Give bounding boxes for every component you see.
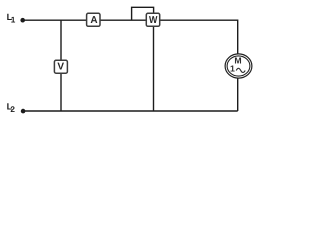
svg-text:A: A <box>90 15 97 26</box>
svg-text:V: V <box>57 61 64 72</box>
svg-text:1: 1 <box>11 15 16 24</box>
svg-text:W: W <box>149 15 158 26</box>
svg-text:M: M <box>234 56 241 66</box>
svg-text:2: 2 <box>10 105 15 114</box>
svg-text:1: 1 <box>230 64 235 74</box>
